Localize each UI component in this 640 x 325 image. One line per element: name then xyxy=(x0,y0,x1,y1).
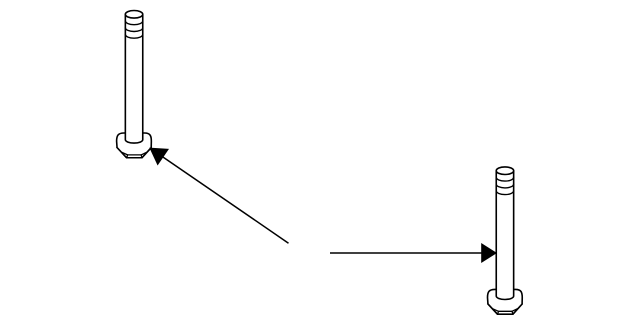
leader line to bolt 1 xyxy=(160,155,289,243)
leader line to bolt 2 xyxy=(330,252,486,254)
bolt 2 (lower right) xyxy=(488,167,523,314)
bolt 1 (upper left) xyxy=(117,11,152,158)
arrowhead to bolt 2 xyxy=(481,243,497,263)
arrowhead to bolt 1 xyxy=(149,148,169,166)
